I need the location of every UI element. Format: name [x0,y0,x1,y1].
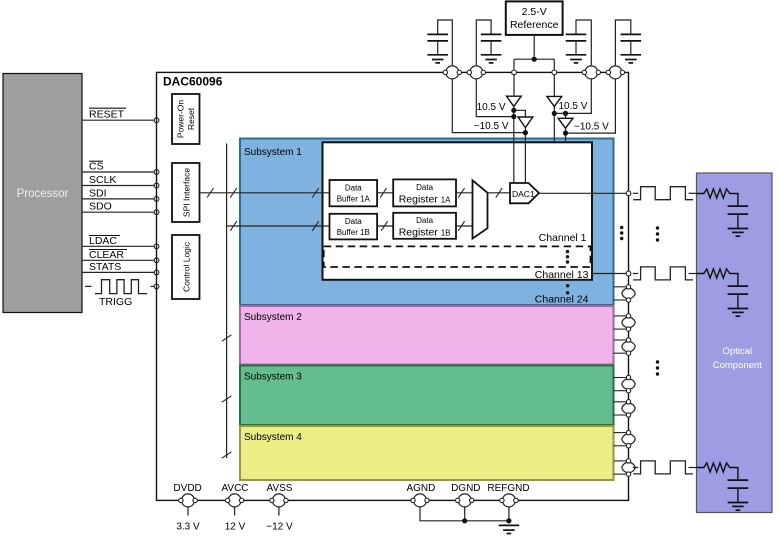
wire pin3 to right node [566,79,592,113]
channel 13 dashed box [324,246,591,267]
wire pin1 to -10.5V node [452,79,525,132]
bus slash [496,188,502,198]
multipin AVSS2 on top edge [606,66,624,79]
multipin group6 right edge [614,430,636,448]
pin RESET [154,118,159,123]
svg-text:Channel 1: Channel 1 [539,232,587,244]
ground C1 [427,55,448,63]
block Data Buffer 1B [330,214,378,240]
capacitor C1 [427,34,448,54]
wire buffer1A to register1A [377,192,393,194]
svg-text:2.5-V: 2.5-V [522,6,547,18]
svg-text:STATS: STATS [89,261,121,273]
svg-text:Processor: Processor [17,188,69,200]
resistor R1 [697,189,738,206]
dots right edge channels [620,226,623,240]
svg-text:Subsystem 3: Subsystem 3 [244,372,302,383]
ground load3 [728,503,749,511]
bus slash [312,221,318,231]
block Data Buffer 1A [330,180,378,206]
bus slash [381,221,387,231]
wire SDI [82,198,157,200]
bus slash [380,188,386,198]
svg-text:Subsystem 2: Subsystem 2 [244,312,302,323]
multipin AVDD2 on top edge [582,66,600,79]
wire AVSS supply [278,507,280,515]
pin TRIGG [154,284,159,289]
pin REFB on top edge [552,70,557,75]
bus slash [222,335,232,341]
wire ground rail [420,507,509,520]
bus slash [458,188,464,198]
wire bus row B [227,225,329,227]
capacitor C3 wire [576,20,591,65]
resistor R3 [697,463,738,480]
svg-text:Buffer 1A: Buffer 1A [337,195,371,204]
bus slash [222,452,232,458]
wire amp1 to amp2 [514,110,526,117]
subsystem 3 band (green) [240,366,614,426]
channel 1 inner white box [323,142,593,279]
junction REFGND dot [506,518,511,523]
pin SDI [154,197,159,202]
pin OUT13 right edge [626,271,631,276]
svg-text:Component: Component [713,360,762,371]
capacitor C3 [566,34,587,54]
subsystem 4 band (yellow) [240,426,614,480]
bus slash [207,188,213,198]
wire CS [82,171,157,173]
svg-text:Reference: Reference [510,19,559,31]
multipin group3 right edge [614,338,636,356]
svg-text:REFGND: REFGND [487,483,529,494]
ground load2 [728,309,749,317]
svg-text:RESET: RESET [89,109,125,121]
svg-text:Buffer 1B: Buffer 1B [337,228,370,237]
svg-text:AVSS: AVSS [267,483,293,494]
block Data Register 1B [393,213,456,239]
vertical bus to subsystems [226,144,228,459]
svg-text:Register 1B: Register 1B [399,227,451,239]
capacitor C4 wire [615,20,630,65]
wire SDO [82,211,157,213]
pin CS [154,170,159,175]
pin SCLK [154,183,159,188]
subsystem 1 band (blue) [240,139,614,306]
pin SDO [154,210,159,215]
waveform channel1 output [633,187,697,200]
svg-text:SCLK: SCLK [89,174,116,186]
wire register1A to mux [456,192,473,194]
dots between waveforms upper [656,226,659,241]
wire register1B to mux [456,225,473,227]
pin CLEAR [154,258,159,263]
multipin AVDD1 on top edge [443,66,461,79]
svg-text:Data: Data [416,183,433,192]
svg-text:DGND: DGND [451,483,480,494]
wire CLEAR [82,259,157,261]
multipin AVCC [225,494,243,507]
ground C3 [566,55,587,63]
bus slash [312,188,318,198]
svg-text:SDO: SDO [89,201,112,213]
svg-text:Channel 24: Channel 24 [535,294,589,306]
block Data Register 1A [393,179,456,206]
svg-text:AGND: AGND [406,483,435,494]
svg-text:Register 1A: Register 1A [399,194,451,206]
wire TRIGG dashes and pulse waveform [85,280,155,294]
wire STATS [82,271,157,273]
wire DAC1 output to channel1 pin [539,192,626,194]
svg-text:10.5 V: 10.5 V [559,101,588,112]
wire reference output [514,35,554,97]
dots between waveforms lower [656,360,659,375]
svg-text:DVDD: DVDD [173,483,201,494]
junction DGND dot [462,518,467,523]
dots below channel13 [566,284,569,294]
svg-text:Optical: Optical [723,346,753,357]
multipin group5 right edge [614,400,636,418]
2.5-V Reference box [506,1,563,35]
multipin AVSS1 on top edge [467,66,485,79]
multipin AVSS [270,494,288,507]
ground load1 [728,229,749,237]
svg-text:DAC1: DAC1 [512,189,535,199]
DAC60096 outer box [157,72,629,500]
wire buffer1B to register1B [377,225,393,227]
label CLEAR [89,249,127,261]
buffer amp -10.5V right [558,118,573,142]
wire DVDD supply [187,507,189,515]
bus slash [458,221,464,231]
buffer amp -10.5V left [518,117,533,183]
resistor R2 [697,269,738,286]
multipin REFGND [500,494,518,507]
ground C4 [621,55,642,63]
svg-text:Data: Data [416,216,433,225]
svg-text:TRIGG: TRIGG [99,296,132,308]
wire mux to DAC1 [488,192,511,194]
subsystem 2 band (pink) [240,306,614,365]
mux trapezoid [473,180,488,238]
wire node to amp4 [554,113,565,118]
svg-text:Subsystem 4: Subsystem 4 [244,432,302,443]
pin REFA on top edge [512,70,517,75]
processor block [3,74,82,313]
junction ref node [532,57,537,62]
svg-text:CLEAR: CLEAR [89,249,124,261]
bus slash [222,396,232,402]
junction dot right out [563,131,568,136]
block SPI Interface [172,163,200,222]
svg-text:Channel 13: Channel 13 [535,269,589,281]
wire AVCC supply [234,507,236,515]
svg-text:10.5 V: 10.5 V [477,102,506,113]
capacitor C2 [481,34,502,54]
label LDAC [89,235,120,247]
capacitor load2 [728,286,749,308]
svg-text:Power-On: Power-On [175,100,185,139]
svg-text:DAC60096: DAC60096 [163,75,223,89]
svg-text:12 V: 12 V [225,522,246,533]
DAC1 converter [510,183,539,203]
bus slash [230,221,236,231]
ground symbol bottom [499,525,520,533]
pin OUT1 right edge [626,191,631,196]
optical component block [697,173,773,513]
capacitor C4 [621,34,642,54]
multipin group4 right edge [614,375,636,393]
wire RESET [82,119,157,121]
svg-text:Reset: Reset [186,107,196,130]
junction dots right [552,111,568,116]
capacitor C1 wire [438,20,453,65]
wire LDAC [82,245,157,247]
junction dot left out [523,130,528,135]
label CS [89,161,104,173]
pin STATS [154,270,159,275]
wire SCLK [82,185,157,187]
wire SPI bus row A [200,192,330,194]
svg-text:Data: Data [345,217,362,226]
svg-text:−10.5 V: −10.5 V [474,121,509,132]
multipin group2 right edge [614,314,636,332]
buffer amp +10.5V left [507,96,522,183]
multipin group7 right edge [614,459,636,477]
svg-text:Control Logic: Control Logic [182,241,192,292]
multipin DVDD [179,494,198,507]
block Power-On Reset [172,94,200,144]
svg-text:−12 V: −12 V [266,522,293,533]
svg-text:LDAC: LDAC [89,235,117,247]
bus slash [230,188,236,198]
capacitor C2 wire [476,20,491,65]
svg-text:SPI Interface: SPI Interface [182,168,192,217]
waveform channel24 output [633,461,697,474]
ground C2 [481,55,502,63]
svg-text:CS: CS [89,161,104,173]
wire pin4 to right out node [566,79,616,133]
buffer amp +10.5V right [547,96,562,142]
svg-text:Subsystem 1: Subsystem 1 [244,147,302,158]
svg-text:SDI: SDI [89,187,107,199]
multipin group1 right edge [614,285,636,303]
block Control Logic [172,235,200,299]
pin LDAC [154,244,159,249]
junction dots left [511,108,516,119]
svg-text:Data: Data [345,184,362,193]
multipin DGND [456,494,474,507]
capacitor load3 [728,480,749,502]
svg-text:3.3 V: 3.3 V [176,522,200,533]
svg-text:AVCC: AVCC [221,483,248,494]
wire pin2 to mid node [476,79,514,116]
multipin AGND [411,494,429,507]
dots inside dashed box [566,250,569,264]
capacitor load1 [728,206,749,228]
wire channel13 output [592,273,626,275]
svg-text:−10.5 V: −10.5 V [574,122,609,133]
waveform channel13 output [633,267,697,280]
label RESET [89,108,126,120]
